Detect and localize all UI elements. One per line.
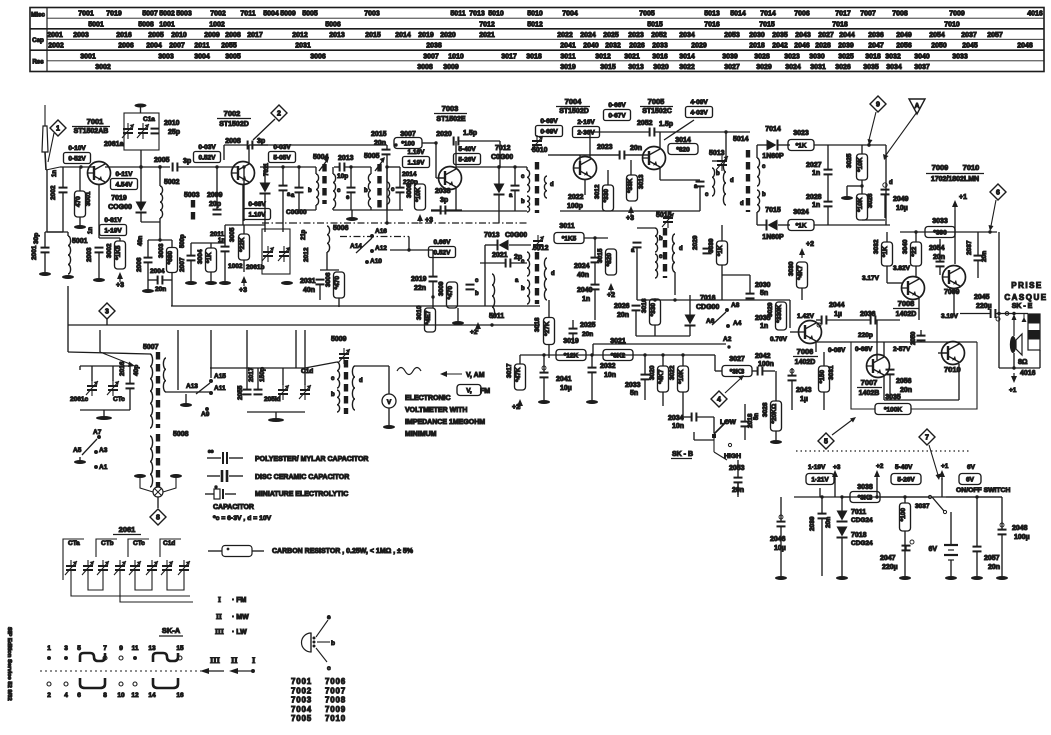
- svg-text:3016: 3016: [652, 53, 668, 60]
- svg-text:5013: 5013: [704, 11, 720, 18]
- junction rail 877: [875, 495, 878, 498]
- wire 2001 top tie: [45, 231, 68, 233]
- svg-text:2023: 2023: [597, 144, 613, 151]
- wire +1 dn: [954, 210, 956, 264]
- wire 7019 down: [140, 213, 142, 222]
- wire 3005 up: [243, 225, 245, 234]
- wire 2023 left: [560, 154, 620, 156]
- label 1n 2035: [760, 323, 768, 330]
- svg-text:3028: 3028: [754, 53, 770, 60]
- svg-text:1N60P: 1N60P: [762, 234, 784, 241]
- svg-text:2015: 2015: [371, 131, 387, 138]
- svg-text:3026: 3026: [835, 64, 851, 71]
- wire 2007 up: [190, 243, 192, 256]
- svg-text:2040: 2040: [583, 43, 599, 50]
- junction cap a: [513, 165, 516, 168]
- coil 5001: [68, 236, 71, 274]
- core 5015: [663, 228, 667, 278]
- capacitor 2016 40p: [119, 361, 140, 388]
- svg-text:*10K: *10K: [857, 157, 864, 172]
- voltage 0.70V: [770, 336, 788, 343]
- svg-text:2044: 2044: [829, 302, 845, 309]
- capacitor a input: [291, 188, 304, 199]
- wire cap dn: [514, 191, 516, 212]
- junction agc 386: [385, 221, 388, 224]
- wire 2001 up: [44, 232, 46, 248]
- wire 2025 dn: [572, 334, 574, 345]
- svg-text:*10K: *10K: [678, 369, 685, 384]
- label A3: [99, 447, 108, 454]
- svg-text:c: c: [327, 665, 331, 672]
- wire 5015 secondary to det: [674, 272, 676, 295]
- resistor 3026 10K: [857, 193, 875, 220]
- label 2054 20n: [929, 245, 945, 252]
- label +1 speaker: [1009, 387, 1017, 394]
- label CODGOO: [505, 232, 527, 239]
- resistor 3006 470: [325, 272, 345, 298]
- svg-text:6V: 6V: [928, 546, 937, 553]
- wire 2033 up: [644, 355, 646, 375]
- wire 2006-3003 top: [148, 239, 172, 241]
- svg-text:d: d: [730, 178, 734, 184]
- wire 2004 left: [147, 263, 149, 281]
- svg-text:3022: 3022: [679, 64, 695, 71]
- capacitor 2015: [382, 150, 391, 155]
- svg-text:7001: 7001: [87, 117, 104, 126]
- band legend II MW: [216, 612, 249, 621]
- wire 3031 dn: [823, 392, 825, 410]
- resistor 3020 4K7: [649, 365, 669, 392]
- svg-text:*100: *100: [401, 140, 415, 147]
- wire cap a up: [298, 167, 300, 188]
- wire 3005 to line: [243, 167, 245, 221]
- wire jack right drop: [1039, 350, 1041, 368]
- junction det 655: [653, 298, 656, 301]
- label 20n 2026: [617, 312, 629, 319]
- wire 7015 right: [778, 224, 790, 226]
- junction speaker bottom: [1012, 366, 1015, 369]
- label 2008: [225, 138, 241, 145]
- svg-text:2008: 2008: [225, 32, 241, 39]
- resistor 3016 330: [641, 298, 661, 325]
- svg-text:4.54V: 4.54V: [116, 181, 134, 188]
- supply arrow +3 under 3008: [417, 214, 433, 224]
- svg-text:3028: 3028: [762, 402, 769, 417]
- svg-text:2056: 2056: [896, 43, 912, 50]
- svg-text:2031: 2031: [300, 278, 316, 285]
- ground 2057: [971, 576, 983, 580]
- svg-text:2034: 2034: [679, 32, 695, 39]
- trimmer C1d: [299, 384, 311, 400]
- supply arrow +2 under 5011: [475, 322, 481, 332]
- svg-text:3011: 3011: [560, 53, 575, 60]
- svg-text:CTb: CTb: [101, 540, 114, 547]
- svg-text:20n: 20n: [630, 145, 642, 152]
- svg-text:FM: FM: [480, 388, 490, 395]
- voltmeter circle: [382, 394, 396, 408]
- wire 7003 collector up: [455, 141, 457, 168]
- voltage label 6V: [959, 464, 981, 485]
- diode 7016: [685, 315, 696, 326]
- svg-text:1002: 1002: [228, 263, 243, 270]
- svg-text:30p: 30p: [33, 233, 40, 244]
- svg-text:470: 470: [75, 196, 82, 207]
- svg-text:V,: V,: [466, 387, 472, 394]
- wire battery up: [950, 512, 952, 545]
- svg-text:9: 9: [876, 102, 880, 109]
- svg-text:40p: 40p: [133, 365, 140, 376]
- coil 5010 left c: [527, 170, 530, 192]
- label 2020: [436, 131, 452, 138]
- svg-text:ON/OFF SWITCH: ON/OFF SWITCH: [956, 487, 1010, 494]
- svg-text:1402D: 1402D: [896, 311, 917, 318]
- capacitor 2025 20n: [569, 329, 594, 338]
- wire 7002 collector right: [249, 144, 310, 146]
- svg-text:1n: 1n: [812, 170, 820, 177]
- label 3p 2038: [440, 197, 448, 204]
- svg-text:A10: A10: [370, 258, 382, 265]
- wire 3023 to drop: [869, 144, 886, 146]
- svg-text:*10K: *10K: [857, 197, 864, 212]
- wire 2032 up: [591, 355, 593, 368]
- wire 3004 up: [210, 243, 212, 248]
- headphone jack PRISE CASQUE: [1004, 281, 1047, 322]
- svg-text:3010: 3010: [416, 305, 423, 320]
- svg-text:20n: 20n: [933, 254, 945, 261]
- wire 2011 bus: [191, 242, 225, 244]
- svg-text:7018: 7018: [851, 532, 867, 539]
- voltage 3.82V: [893, 265, 911, 272]
- voltage 3.19V: [941, 313, 959, 320]
- junction base 7001: [79, 165, 82, 168]
- wire IF main 7004-7005 line: [560, 154, 620, 156]
- svg-text:2009: 2009: [204, 32, 220, 39]
- svg-text:+3: +3: [833, 464, 841, 471]
- label 2005: [154, 157, 170, 164]
- bank trimmer 2b: [114, 560, 126, 576]
- label 5n: [760, 290, 768, 297]
- wire 3037 up: [904, 497, 906, 503]
- svg-text:7001: 7001: [78, 11, 94, 18]
- svg-text:2006: 2006: [118, 43, 134, 50]
- junction af 940: [938, 230, 941, 233]
- svg-text:3031: 3031: [810, 64, 826, 71]
- svg-text:C0G00: C0G00: [491, 154, 513, 161]
- svg-text:7004: 7004: [562, 11, 578, 18]
- label 1u 2044: [834, 311, 842, 318]
- svg-text:CDG24: CDG24: [851, 517, 873, 524]
- capacitor 2056: [886, 370, 895, 375]
- svg-text:3017: 3017: [506, 363, 513, 378]
- svg-text:e: e: [327, 614, 331, 621]
- svg-text:A12: A12: [375, 245, 387, 252]
- svg-text:A4: A4: [733, 320, 742, 327]
- svg-text:*20KΩ: *20KΩ: [771, 404, 778, 424]
- label A10: [370, 258, 382, 265]
- svg-text:7004: 7004: [291, 705, 312, 714]
- svg-text:100µ: 100µ: [1014, 534, 1030, 541]
- svg-text:d: d: [359, 378, 363, 384]
- svg-text:2022: 2022: [568, 194, 584, 201]
- feedback loop wires: [851, 342, 977, 409]
- svg-text:+3: +3: [626, 215, 634, 222]
- svg-text:6: 6: [77, 692, 81, 699]
- wire rail right seg: [946, 496, 1002, 498]
- label c 5010: [521, 174, 525, 180]
- core 5003: [191, 200, 195, 224]
- wire divider gnd: [847, 185, 862, 187]
- wire main line 7001 to 2005: [105, 166, 170, 168]
- svg-text:3005: 3005: [225, 53, 241, 60]
- svg-text:2025: 2025: [603, 32, 619, 39]
- wire right af drop: [998, 232, 1000, 314]
- wire tank1 b up: [370, 167, 372, 174]
- svg-text:2038: 2038: [426, 43, 442, 50]
- arrow from node 9: [868, 112, 877, 145]
- svg-text:II: II: [231, 655, 238, 665]
- wire 5014 bottom lead: [756, 212, 758, 225]
- capacitor 2020 1.5p: [454, 130, 477, 146]
- svg-text:1n: 1n: [52, 170, 58, 177]
- svg-text:C0G00: C0G00: [505, 232, 527, 239]
- svg-text:2055: 2055: [237, 385, 244, 400]
- svg-text:d: d: [550, 182, 554, 188]
- resistor 3008 10K: [406, 183, 426, 210]
- svg-text:7015: 7015: [765, 207, 781, 214]
- label b 5004: [308, 188, 312, 194]
- label 5004: [313, 154, 329, 161]
- wire main line 7003 out: [456, 166, 527, 168]
- svg-text:*680: *680: [167, 251, 174, 265]
- wire trimmer bus bottom: [80, 409, 130, 411]
- wire main line antenna to 7001: [60, 166, 93, 168]
- svg-text:3019: 3019: [563, 338, 579, 345]
- label b 5010: [521, 199, 525, 205]
- wire 2027 up: [827, 145, 829, 170]
- ground A13: [180, 403, 192, 407]
- svg-text:3004: 3004: [194, 53, 210, 60]
- svg-text:7009: 7009: [932, 163, 949, 172]
- svg-text:ELECTRONIC: ELECTRONIC: [405, 395, 451, 402]
- svg-text:3039: 3039: [722, 53, 738, 60]
- wire 5005 c up: [386, 167, 388, 182]
- label b tank1: [364, 188, 368, 194]
- label 2056 20n: [896, 378, 912, 385]
- svg-text:7009: 7009: [944, 289, 960, 296]
- label A15: [214, 373, 226, 380]
- label 7012: [495, 145, 511, 152]
- svg-text:16: 16: [176, 692, 184, 699]
- svg-text:0.70V: 0.70V: [770, 336, 788, 343]
- SK-A roman III II I: [210, 655, 256, 665]
- svg-text:21p: 21p: [301, 229, 307, 240]
- svg-text:3003: 3003: [158, 53, 174, 60]
- svg-text:b: b: [331, 640, 335, 647]
- resistor 3040 22: [902, 239, 922, 266]
- capacitor 2048 100u electrolytic: [998, 523, 1030, 541]
- wire lower rail 7003: [431, 210, 527, 212]
- junction af 916: [914, 230, 917, 233]
- ground 5007 left: [134, 474, 146, 478]
- capacitor 2027: [824, 170, 833, 175]
- svg-text:3033: 3033: [932, 218, 948, 225]
- wire 3005 dn: [243, 260, 245, 272]
- ground battery: [945, 576, 957, 580]
- wire 2011 up: [224, 243, 226, 247]
- svg-text:3001: 3001: [80, 53, 96, 60]
- capacitor 2007 500p: [179, 234, 196, 272]
- svg-text:A11: A11: [214, 385, 226, 392]
- wire 5005 c dn: [386, 204, 388, 210]
- wire 2036 to 7007 v: [876, 320, 878, 360]
- ground under 2003: [93, 278, 105, 282]
- svg-text:2028: 2028: [806, 194, 822, 201]
- transistor 7006: [799, 321, 822, 344]
- adjust arrow 5004: [319, 157, 329, 171]
- SK-A top contact numbers: [47, 645, 184, 652]
- svg-text:+1: +1: [1009, 387, 1017, 394]
- wire 3025 up: [861, 145, 863, 154]
- wire antenna down leg: [46, 170, 48, 232]
- svg-text:7012: 7012: [479, 21, 495, 28]
- wire af path: [876, 319, 901, 321]
- svg-text:A2: A2: [723, 336, 732, 343]
- svg-text:SK - E: SK - E: [1012, 303, 1033, 310]
- wire 2026 dn: [635, 311, 637, 337]
- wire 2048 up: [1001, 497, 1003, 530]
- wire jack left drop: [998, 314, 1000, 369]
- legend disc ceramic text: [255, 474, 349, 481]
- svg-text:*8K2: *8K2: [611, 352, 626, 359]
- label 2015 20n: [371, 131, 387, 138]
- svg-text:III: III: [210, 655, 221, 665]
- svg-text:2020: 2020: [440, 32, 456, 39]
- capacitor 2017 150p: [248, 367, 266, 394]
- svg-text:5-26V: 5-26V: [458, 156, 476, 163]
- wire 2023 left2: [548, 154, 560, 156]
- svg-text:5: 5: [77, 645, 81, 652]
- svg-text:d: d: [889, 180, 893, 186]
- svg-text:1001: 1001: [159, 21, 175, 28]
- svg-text:2030: 2030: [755, 282, 771, 289]
- svg-text:2011: 2011: [194, 43, 209, 50]
- capacitor 2040: [591, 285, 600, 290]
- wire 2056 dn: [889, 375, 891, 401]
- voltage label 0.10V/0.52V at 7001 base: [64, 145, 91, 164]
- wire 3003 to rail: [171, 280, 173, 306]
- wire speaker to bottom: [1013, 353, 1015, 368]
- wire 7008 base: [887, 282, 902, 284]
- svg-text:5003: 5003: [184, 192, 200, 199]
- ground A5: [74, 460, 86, 464]
- wire mid bus to tg2: [210, 367, 247, 369]
- svg-text:CARBON RESISTOR , 0.25W,: CARBON RESISTOR , 0.25W, < 1MΩ , ± 5%: [272, 548, 414, 555]
- supply arrow +3 under 3002: [116, 272, 124, 289]
- trimmer box 2061b: [262, 229, 290, 274]
- junction 3023 line: [867, 143, 870, 146]
- svg-text:3004: 3004: [197, 249, 204, 264]
- svg-text:7014: 7014: [765, 126, 781, 133]
- wire 3040 up: [915, 232, 917, 242]
- label 2040 1n: [577, 287, 593, 294]
- svg-text:20n: 20n: [617, 312, 629, 319]
- voltage 2.57V: [893, 346, 911, 353]
- svg-text:2004: 2004: [150, 268, 165, 275]
- wire 2003 down: [98, 253, 100, 279]
- svg-text:2037: 2037: [966, 240, 973, 255]
- label 7011 CDG24: [851, 509, 866, 516]
- wire tank1 top l: [334, 166, 340, 168]
- ground above C1a: [135, 104, 147, 108]
- wire 2050 dn: [920, 341, 922, 343]
- svg-text:7011: 7011: [851, 509, 866, 516]
- svg-text:2·36V: 2·36V: [577, 129, 595, 136]
- svg-text:2054: 2054: [929, 32, 945, 39]
- wire 3013 up: [630, 160, 632, 175]
- svg-text:3032: 3032: [885, 53, 901, 60]
- svg-text:+3: +3: [239, 287, 247, 294]
- voltage 0.08V at 7006: [828, 347, 846, 354]
- resistor 3024 1K: [788, 209, 814, 231]
- svg-text:*820: *820: [676, 146, 690, 153]
- label b 5014: [762, 192, 766, 198]
- label c 5015: [659, 254, 663, 260]
- svg-text:6V: 6V: [967, 464, 976, 471]
- svg-text:VOLTMETER WITH: VOLTMETER WITH: [405, 407, 467, 414]
- svg-text:0-81V: 0-81V: [104, 217, 122, 224]
- capacitor 2019: [429, 277, 438, 282]
- svg-text:14: 14: [148, 692, 156, 699]
- svg-text:0.52V: 0.52V: [434, 249, 452, 256]
- wire bus to 3027: [700, 354, 715, 356]
- svg-text:*330: *330: [603, 189, 610, 203]
- svg-text:5009: 5009: [331, 336, 347, 343]
- voltage label 0.81V/1.19V: [100, 217, 127, 236]
- svg-text:220µ: 220µ: [976, 303, 992, 310]
- svg-text:2·16V: 2·16V: [577, 119, 595, 126]
- svg-text:40n: 40n: [138, 235, 144, 246]
- label 5011: [489, 313, 504, 320]
- wire supply arrows drop1: [834, 478, 836, 497]
- wire 7003 base left: [435, 143, 437, 178]
- transistor 7002: [232, 162, 255, 185]
- svg-text:2019: 2019: [418, 32, 434, 39]
- wire tg2 drops4: [304, 368, 306, 385]
- wire 2034 to switch: [713, 417, 715, 433]
- wire 5004 b top: [315, 167, 317, 174]
- label 2036 10n: [860, 311, 876, 318]
- wire osc section link: [166, 391, 210, 393]
- wire 3037 dn: [904, 531, 906, 576]
- wire 7007-7010 top: [816, 341, 977, 343]
- arrow from node 6: [989, 200, 997, 231]
- junction main 160: [158, 165, 161, 168]
- label 2029 1n: [692, 235, 699, 250]
- svg-text:3012: 3012: [594, 184, 601, 199]
- label 2026 20n: [614, 303, 630, 310]
- voltage label 0.03V/5.05V right of 7002: [269, 144, 296, 163]
- wire 7004 collector to top: [589, 132, 591, 158]
- label +1 rail: [941, 463, 949, 470]
- svg-text:MINIATURE ELECTROLYTIC: MINIATURE ELECTROLYTIC: [255, 491, 348, 498]
- wire 3022 dn: [682, 392, 684, 406]
- wire 7006 collector: [815, 342, 817, 352]
- resistor 3037 100: [900, 503, 930, 531]
- svg-text:7019: 7019: [106, 11, 122, 18]
- trimmer 2061b b: [278, 246, 290, 262]
- band legend III LW: [215, 627, 247, 636]
- SK-A bridge 13-15 top: [153, 653, 182, 662]
